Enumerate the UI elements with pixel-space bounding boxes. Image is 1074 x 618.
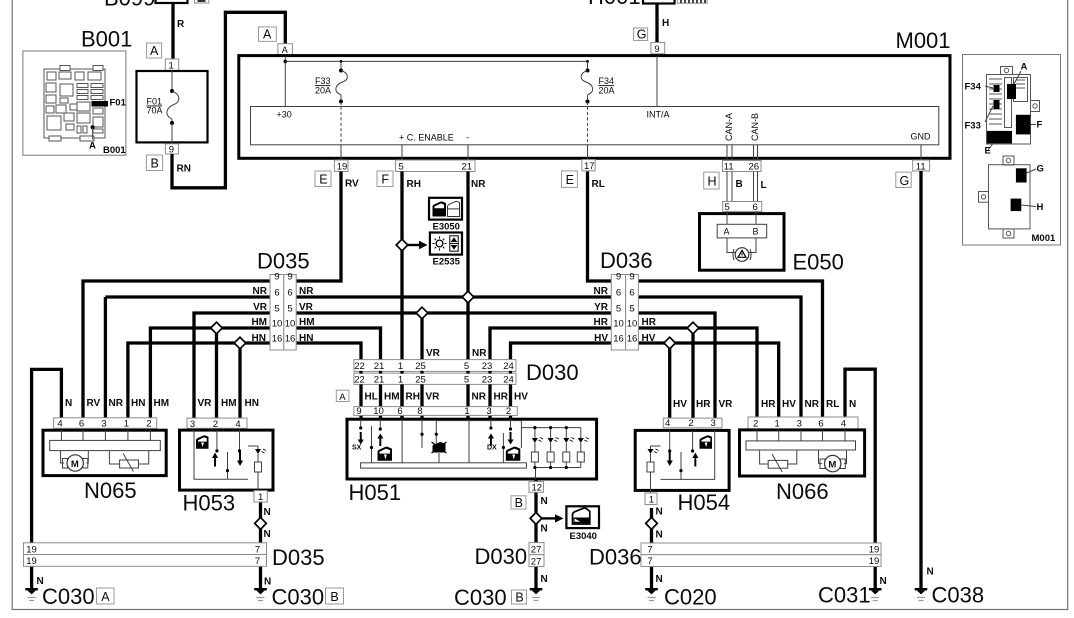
up/down selector [450,236,458,251]
svg-text:RH: RH [407,179,421,190]
svg-text:VR: VR [253,302,268,313]
black connector G [1016,168,1027,182]
svg-text:E: E [319,173,327,187]
splice on HR row 10 right [687,322,699,334]
internal feed line to fuses F33/F34 [285,60,587,62]
black connector H [1011,199,1022,212]
svg-text:26: 26 [749,162,760,173]
H054 pin strip [663,418,722,428]
svg-text:HN: HN [245,398,259,409]
svg-text:F34: F34 [965,82,982,93]
interior thin lines [361,419,581,479]
svg-text:HN: HN [131,398,145,409]
wire VR branch down to D030 pin 25 [420,313,423,360]
svg-text:19: 19 [869,545,880,556]
wire N: H051 pin12 to ground C030-B center [534,479,537,590]
relay boxes small [1014,78,1028,102]
LED branches [531,426,589,469]
fuse box F01 [137,71,208,142]
wire labels above H053 [198,398,259,409]
ground C030-B left [254,588,267,601]
svg-text:5: 5 [629,304,634,315]
svg-text:8: 8 [417,406,422,417]
door window icon filled [433,201,447,216]
letter box A (D030) [336,390,349,401]
svg-text:B: B [330,590,338,604]
svg-text:5: 5 [399,162,404,173]
wire N: H054 pin1 to ground C020 [650,508,653,590]
svg-text:NR: NR [472,348,487,359]
svg-text:21: 21 [374,375,385,386]
motor leads [61,451,64,463]
svg-text:N: N [541,524,548,535]
pin stubs [757,430,845,441]
svg-text:INT/A: INT/A [647,110,670,120]
svg-text:HN: HN [252,333,266,344]
svg-text:NR: NR [299,286,314,297]
svg-text:A: A [282,45,288,55]
H053 pin strip [187,418,247,428]
pin 12 box [529,482,544,493]
pin A box (M001 top) [278,44,293,57]
svg-text:6: 6 [616,288,621,299]
wire HM row 10: N065 pin2 up, across to D030 pin 21 [150,328,380,419]
svg-text:NR: NR [805,399,820,410]
svg-text:70A: 70A [147,106,163,116]
svg-text:6: 6 [753,202,758,213]
B001 PCB outline [44,66,105,142]
N065 pin strip [54,418,157,429]
wire HM branch to H053 pin 2 [215,328,218,419]
splice on HN row 16 [234,337,246,349]
door icon right [506,447,521,461]
pin stub 21 [467,145,469,160]
svg-text:6: 6 [274,288,279,299]
fuse rows (hatch) [989,79,1002,124]
svg-text:2: 2 [146,419,151,430]
pin 1 box of F01 [165,59,178,70]
svg-text:1: 1 [124,419,129,430]
D035 wire labels left [251,286,267,344]
resistor [647,462,654,472]
junction dots [533,426,536,429]
svg-text:N: N [541,574,548,585]
svg-text:5: 5 [287,304,292,315]
bottom bus bar [361,463,527,468]
svg-text:-: - [466,133,469,143]
svg-text:6: 6 [629,288,634,299]
motor leads [819,450,823,464]
H051 pin strip [354,407,517,416]
resistor [255,462,262,472]
N066 box [740,430,865,476]
black connector F [1016,115,1030,135]
svg-text:R: R [177,19,185,30]
wire HN row 16: N065 pin1 up, across to D030 pin 22 [128,343,361,419]
svg-text:10: 10 [613,319,624,330]
svg-text:G: G [1037,164,1044,175]
svg-text:19: 19 [869,556,880,567]
svg-text:16: 16 [272,334,283,345]
pin 1 box [645,493,657,505]
svg-text:10: 10 [627,319,638,330]
svg-text:11: 11 [916,161,926,172]
svg-text:E: E [985,146,991,157]
letter box B (F01) [146,155,162,171]
svg-text:F: F [381,173,389,187]
svg-text:16: 16 [627,334,638,345]
svg-text:N: N [541,496,548,507]
svg-text:9: 9 [274,272,279,283]
svg-text:2: 2 [688,418,693,429]
pointer E [988,144,993,151]
pointer F34 [985,86,993,88]
LED triangles [532,438,584,443]
svg-text:C030: C030 [272,585,325,610]
svg-text:6: 6 [818,419,823,430]
svg-text:HR: HR [696,399,711,410]
D036 wire labels right [642,317,657,344]
CAN wires B/L from M001 to E050 [727,172,758,202]
svg-text:27: 27 [531,556,542,567]
svg-text:21: 21 [462,162,473,173]
arrow up [692,453,698,467]
black bar E [987,131,1012,144]
B001 inset box [23,51,126,155]
H053 box [180,430,274,490]
E050 box [700,214,785,271]
thermistor [768,460,788,468]
D036 block columns [611,275,625,351]
svg-text:RV: RV [87,398,101,409]
pointer F33 [985,106,993,122]
wire NR down to N065 pin 3 [104,297,107,419]
arrow up DX [488,434,494,447]
wire N of N065 to ground C030-A [32,369,62,590]
svg-text:9: 9 [169,145,174,156]
svg-text:NR: NR [109,398,124,409]
wire labels above N066 [761,399,856,410]
svg-text:N: N [849,399,856,410]
D035 pin numbers [272,272,296,345]
svg-text:G: G [900,174,910,188]
svg-text:E3040: E3040 [570,531,597,542]
svg-text:L: L [761,180,767,191]
thermistor leads [109,451,119,464]
siren symbol [735,248,749,262]
dashed feed F33 to pin 19 [340,107,342,145]
wire NR row6 right down to N066 pin 3 [638,297,801,418]
pointer A [1014,71,1021,84]
svg-text:VR: VR [299,302,314,313]
svg-text:N066: N066 [776,479,829,504]
pin stub 19 [340,145,342,160]
wire RV: M001 pin19 down, row 9 across to N065 pin 6 [83,172,341,420]
splice on VR row 5 [416,307,428,319]
svg-text:B001: B001 [81,27,132,52]
svg-text:3: 3 [797,419,802,430]
splice on H051 ground wire (feeds E3040) [530,512,542,524]
wire N: H053 pin1 to ground C030-B [259,502,262,590]
wire RN from F01 pin 9 around to M001 pin A [172,12,285,188]
svg-text:1: 1 [775,419,780,430]
svg-text:RL: RL [592,179,605,190]
door icon [700,435,713,448]
thermistor leads [760,450,769,464]
wire N (GND) M001 pin11 to ground C038 [919,171,922,590]
svg-text:H: H [708,175,717,189]
splice on HM row 10 [211,322,223,334]
svg-text:+ C. ENABLE: + C. ENABLE [399,133,454,143]
internal wire from pin 9 down to INT/A [656,56,658,107]
LED [648,449,654,454]
svg-text:H: H [662,18,669,29]
letter box A (F01) [147,43,162,58]
pin stubs [61,430,150,440]
pin 19 box [334,160,348,172]
svg-text:HR: HR [594,317,609,328]
mounting tab top [1001,67,1013,75]
svg-text:D030: D030 [475,544,528,569]
svg-text:A: A [339,392,346,403]
inner bar [50,440,161,450]
pin stubs CAN [726,145,728,161]
svg-text:25: 25 [415,361,426,372]
svg-text:NR: NR [472,392,487,403]
svg-text:NR: NR [253,286,268,297]
svg-text:VR: VR [426,348,441,359]
crossed window icon [433,442,446,452]
svg-text:N: N [656,507,663,518]
ground C031 [869,588,882,601]
svg-text:D035: D035 [272,545,325,570]
svg-text:C031: C031 [818,583,871,608]
junction node at pin A branch [284,60,288,64]
svg-text:10: 10 [285,319,296,330]
svg-text:3: 3 [101,419,106,430]
svg-text:YR: YR [594,302,609,313]
splice on H054 ground wire [646,517,658,529]
svg-text:17: 17 [584,161,595,172]
ground C038 [915,588,928,601]
wire labels above N065 [65,398,169,409]
pin 1 box [254,491,267,502]
svg-text:19: 19 [26,544,37,555]
svg-text:B: B [515,496,523,510]
svg-text:SX: SX [352,445,362,452]
svg-text:HV: HV [594,333,608,344]
door outline icon [448,201,460,216]
svg-text:H001: H001 [588,0,641,9]
svg-text:2: 2 [506,406,511,417]
arrow down [237,452,243,466]
svg-text:23: 23 [482,375,493,386]
pin stub 17 [587,145,589,160]
LED [255,449,261,454]
motor M [820,459,825,469]
svg-text:9: 9 [356,406,361,417]
splice on NR row 6 [462,291,474,303]
arrow to E3040 [542,517,556,519]
wire HN branch to H053 pin 4 [238,343,241,419]
svg-text:5: 5 [274,304,279,315]
svg-text:6: 6 [79,419,84,430]
arrow up [212,453,218,467]
interior [651,430,715,493]
svg-text:E050: E050 [793,250,844,275]
pin 17 box [582,160,595,171]
svg-text:M001: M001 [1032,233,1056,244]
svg-text:N: N [880,576,887,587]
svg-text:4: 4 [841,419,846,430]
inner connector box A-B [717,224,767,238]
wire HV row 16 right: D030 pin24 up, across to N066 pin 1 [511,343,779,418]
svg-text:A: A [263,28,272,42]
mounting tab right [1031,101,1040,112]
letter box G (GND) [896,172,911,187]
svg-text:C030: C030 [42,584,95,609]
pin stub 5 [401,145,403,160]
svg-text:9: 9 [287,272,292,283]
svg-text:1: 1 [258,492,263,503]
D036 bottom strip [641,543,881,555]
svg-text:B001: B001 [103,145,126,156]
door icon left [378,447,393,461]
pin 9 box (M001 INT/A) [651,43,665,54]
D036 pin numbers [613,272,637,345]
letter box H (CAN) [704,172,719,189]
svg-text:6: 6 [397,406,402,417]
svg-text:9: 9 [654,44,659,55]
svg-text:21: 21 [374,361,385,372]
svg-text:1: 1 [169,61,174,72]
svg-text:A: A [724,227,730,237]
svg-text:G: G [637,28,647,42]
svg-text:RV: RV [345,179,359,190]
pin stub GND [920,145,922,160]
black F34 fuse mark [994,85,1000,92]
wire HR branch to H054 pin 2 [691,328,694,418]
wire RL/row9 right to N066 pin 6 handled above; wire VR row 5 across [194,313,715,419]
D035 bottom strip [24,543,267,555]
svg-text:1: 1 [398,361,403,372]
svg-text:16: 16 [285,334,296,345]
interior junction dots [370,446,373,449]
svg-text:5: 5 [616,304,621,315]
wire labels between D030 and H051 [365,392,529,403]
svg-text:7: 7 [647,556,652,567]
svg-text:A: A [150,44,159,58]
svg-text:3: 3 [486,406,491,417]
wire NR row 6: D035 to D036 [105,295,611,298]
svg-text:+30: +30 [277,110,292,120]
svg-text:M: M [71,459,79,470]
arrow down [667,452,673,466]
H001 box (cut) [643,0,675,4]
svg-text:N: N [65,398,72,409]
M001 box [239,56,950,159]
letter box G (H001) [634,28,648,41]
svg-text:22: 22 [354,361,365,372]
svg-text:20A: 20A [315,85,331,95]
wire NR: M001 pin21 down to splice, row 6 across [466,172,469,361]
svg-text:N: N [656,574,663,585]
svg-text:24: 24 [503,361,514,372]
svg-text:10: 10 [272,319,283,330]
svg-text:HR: HR [494,392,509,403]
interior [194,430,258,490]
svg-text:HM: HM [154,398,170,409]
svg-text:B: B [753,227,759,237]
svg-text:HR: HR [761,399,776,410]
svg-text:5: 5 [464,375,469,386]
ground C030-A [25,588,38,601]
svg-text:HM: HM [299,317,315,328]
svg-text:D036: D036 [600,248,653,273]
svg-text:H051: H051 [349,480,402,505]
wire H from H001 to M001 pin 9 [655,4,658,43]
svg-text:E: E [566,173,574,187]
pin 11 box (GND) [913,160,930,171]
svg-text:VR: VR [719,399,734,410]
wire HR row 10 right: D030 pin23 up, across to N066 pin 2 [490,328,757,418]
svg-text:C038: C038 [932,583,985,608]
D036 wire labels left [594,286,609,344]
pointer F [1031,124,1037,126]
letter box E (pin 19) [315,171,331,187]
svg-text:N: N [264,577,271,588]
svg-text:HV: HV [642,333,656,344]
wire N of N066 to ground C031 [845,369,875,590]
svg-text:RN: RN [177,164,191,175]
fuse F34 [586,60,589,63]
black connector A [1007,84,1016,99]
arrow down right [508,432,514,445]
svg-text:HR: HR [642,317,657,328]
svg-text:5: 5 [725,202,730,213]
pin strip 5-6 [723,202,762,212]
arrow up [377,434,383,447]
svg-text:VR: VR [426,392,441,403]
svg-text:HL: HL [365,392,378,403]
svg-text:N: N [264,507,271,518]
lower connector body G/H [989,165,1031,229]
internal wire from pin A down to +30 [284,56,286,107]
sun symbol [436,240,443,247]
thermistor [120,460,139,468]
svg-text:23: 23 [482,361,493,372]
node A pointer on PCB [91,125,95,129]
motor M [63,459,68,469]
dashed feed F34 to pin 17 [587,107,589,145]
letter box B (H051 pin 12) [511,496,526,509]
svg-text:RH: RH [406,392,420,403]
upper connector body E/F [987,75,1031,145]
wire RL: M001 pin17 down, into D036 row 9 [588,172,823,419]
svg-text:D035: D035 [257,249,310,274]
wire HV branch to H054 pin 4 [668,343,671,418]
svg-text:NR: NR [594,286,609,297]
svg-text:9: 9 [616,272,621,283]
svg-text:22: 22 [354,375,365,386]
tabs [1003,156,1014,165]
pin 9 box of F01 [165,144,178,154]
svg-text:7: 7 [647,545,652,556]
pin strip 5-21 (connector F) [396,160,476,172]
internal wires to A/B [726,211,728,224]
svg-text:E2535: E2535 [433,257,461,268]
letter box E (pin 17) [562,171,578,188]
